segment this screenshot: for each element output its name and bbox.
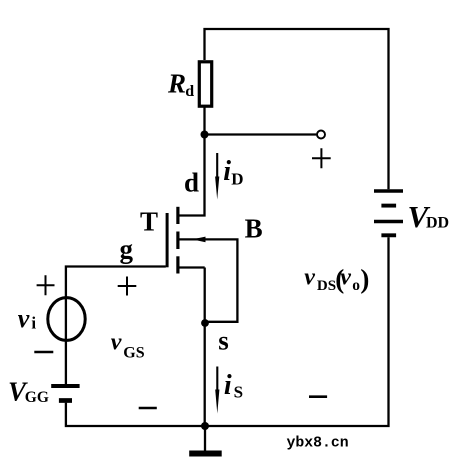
svg-text:i: i bbox=[223, 156, 231, 187]
svg-text:DS: DS bbox=[317, 278, 336, 294]
svg-text:GS: GS bbox=[123, 344, 144, 361]
svg-text:d: d bbox=[184, 168, 199, 198]
svg-text:d: d bbox=[185, 83, 194, 100]
svg-text:o: o bbox=[352, 277, 360, 294]
svg-text:s: s bbox=[218, 326, 229, 356]
svg-text:): ) bbox=[360, 264, 369, 294]
svg-text:v: v bbox=[304, 265, 315, 291]
svg-text:v: v bbox=[340, 265, 351, 291]
svg-text:v: v bbox=[111, 330, 122, 356]
svg-text:S: S bbox=[234, 383, 243, 402]
svg-text:DD: DD bbox=[426, 214, 449, 231]
svg-text:g: g bbox=[120, 234, 134, 264]
svg-text:B: B bbox=[245, 214, 263, 244]
svg-text:ybx8.cn: ybx8.cn bbox=[287, 435, 349, 451]
svg-text:i: i bbox=[224, 370, 232, 401]
svg-text:R: R bbox=[167, 68, 186, 98]
svg-text:T: T bbox=[140, 207, 158, 237]
svg-text:GG: GG bbox=[25, 389, 49, 406]
svg-text:v: v bbox=[18, 304, 30, 333]
svg-text:i: i bbox=[31, 314, 36, 333]
svg-text:D: D bbox=[231, 170, 243, 189]
